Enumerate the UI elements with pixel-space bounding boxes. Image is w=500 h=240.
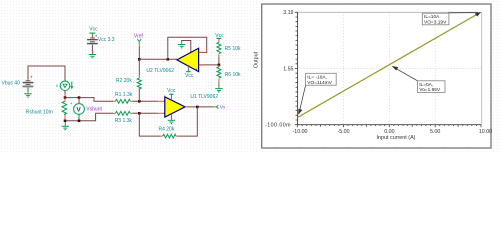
annotation arrow (IL=10A): [448, 12, 481, 16]
node U1 output junction: [196, 106, 199, 109]
svg-text:3.19: 3.19: [283, 10, 293, 16]
node voltmeter bottom junction: [78, 120, 81, 123]
wire R4 feedback loop right: [178, 107, 197, 136]
annotation box (IL=0A): [418, 81, 446, 93]
wire ammeter to top rail: [64, 91, 66, 98]
node ammeter junction: [64, 96, 67, 99]
U2 + input marker: [196, 69, 197, 70]
plot axes: [298, 12, 481, 124]
ground (bottom rail): [62, 122, 69, 130]
svg-text:R2 20k: R2 20k: [116, 78, 132, 84]
node divider mid junction: [218, 64, 221, 67]
annotation arrow (IL=0A): [392, 66, 418, 81]
svg-text:Rshunt 10m: Rshunt 10m: [26, 109, 53, 115]
U2 output pin tick: [174, 58, 176, 60]
plot axis labels: [254, 10, 493, 141]
op-amp U2 TLV9062 (mirrored, points left): [146, 37, 219, 79]
plot gridlines: [298, 12, 482, 124]
svg-text:VO=3.19V: VO=3.19V: [424, 20, 447, 26]
resistor Rshunt 10m: [26, 98, 67, 121]
svg-text:IL=0A,: IL=0A,: [419, 82, 433, 88]
svg-text:R1 1.3k: R1 1.3k: [115, 92, 133, 98]
svg-text:1.55: 1.55: [283, 66, 293, 72]
svg-text:Output: Output: [254, 51, 260, 68]
svg-text:Vo=1.65V: Vo=1.65V: [419, 87, 441, 93]
svg-text:5.00: 5.00: [430, 129, 440, 135]
annotation box (IL=10A): [422, 13, 449, 25]
svg-text:-10.00: -10.00: [292, 129, 307, 135]
resistor R4 20k: [159, 127, 179, 138]
wire Vref to U2 output rail: [138, 46, 140, 59]
ammeter (current probe ii): [56, 81, 74, 91]
node voltmeter top junction: [78, 96, 81, 99]
annotation arrow (IL=-10A): [298, 85, 305, 115]
wire U1 output: [185, 106, 212, 108]
node Vref/R2 junction: [138, 58, 141, 61]
svg-text:R4 20k: R4 20k: [159, 127, 175, 133]
ground (below R6): [215, 89, 222, 92]
power Vcc (divider top): [215, 33, 224, 42]
resistor R5 10k: [217, 42, 241, 65]
resistor R2 20k: [116, 59, 141, 101]
svg-text:Vbus 40: Vbus 40: [2, 80, 21, 86]
op-amp U1 TLV9062 (points right): [158, 88, 218, 124]
svg-text:VO=114mV: VO=114mV: [307, 80, 332, 86]
wire R4 feedback loop left: [139, 113, 160, 136]
resistor R6 10k: [217, 65, 241, 88]
resistor R1 1.3k: [113, 92, 133, 103]
wire R1 to U1: [132, 100, 158, 102]
svg-text:Vshunt: Vshunt: [86, 107, 102, 113]
wire R3 to U1: [132, 112, 158, 114]
wire U2 output to Vref node: [139, 58, 177, 60]
wire bottom rail: [65, 113, 113, 121]
svg-text:IL=10A: IL=10A: [424, 14, 440, 20]
svg-text:IL= -10A,: IL= -10A,: [307, 74, 327, 80]
svg-text:Vcc: Vcc: [185, 73, 194, 79]
svg-text:R3 1.3k: R3 1.3k: [115, 118, 133, 124]
plot curve (output vs input current): [298, 12, 481, 117]
U1 supply-bottom pin to ground: [170, 114, 172, 120]
node U2 output junction: [167, 58, 170, 61]
wire U2 +input to divider: [199, 64, 219, 66]
node ground junction: [64, 120, 67, 123]
U2 supply-bottom pin (Vcc): [187, 66, 189, 68]
svg-text:Vref: Vref: [134, 34, 144, 40]
svg-text:Input current (A): Input current (A): [377, 135, 416, 141]
plot panel background: [262, 4, 491, 148]
svg-text:ii: ii: [56, 83, 58, 88]
wire Vbus to ammeter: [28, 66, 65, 81]
svg-text:Vcc: Vcc: [89, 26, 98, 32]
U2 supply-top wire to ground: [182, 41, 191, 53]
svg-text:V: V: [76, 106, 81, 113]
ground (below Vcc 3.3): [89, 55, 96, 58]
svg-text:10.00: 10.00: [479, 129, 492, 135]
op-amp U1 triangle: [165, 97, 185, 117]
svg-text:R5 10k: R5 10k: [225, 46, 241, 52]
U1 input pins: [158, 100, 165, 102]
op-amp U2 triangle: [177, 48, 199, 71]
U1 output pin tick: [186, 106, 189, 108]
svg-text:R6 10k: R6 10k: [225, 72, 241, 78]
voltage source Vcc 3.3: [88, 26, 115, 53]
U1 - input marker: [164, 96, 165, 97]
annotation box (IL=-10A): [306, 73, 337, 86]
ground (below Vbus): [24, 94, 31, 97]
U2 input pin ticks: [199, 51, 203, 53]
svg-text:+: +: [70, 101, 73, 106]
wire top rail: [65, 98, 113, 102]
x-axis ticks: [298, 125, 481, 128]
U1 supply-top pin (Vcc): [170, 94, 172, 100]
wire U2 feedback loop: [168, 37, 207, 59]
node Vo output label: [212, 105, 225, 110]
ground (U2 supply): [178, 45, 185, 48]
node R1/R2 junction: [138, 100, 141, 103]
voltage source Vbus 40: [2, 75, 34, 94]
ground (U1 supply): [168, 120, 175, 123]
svg-text:Vcc 3.3: Vcc 3.3: [98, 37, 115, 43]
node Vref label: [134, 34, 144, 47]
voltmeter Vshunt: [70, 98, 103, 121]
resistor R3 1.3k: [113, 111, 132, 124]
svg-text:U1 TLV9062: U1 TLV9062: [190, 94, 218, 100]
svg-text:Vcc: Vcc: [167, 88, 176, 94]
node R3/R4 junction: [138, 112, 141, 115]
svg-text:-100.00m: -100.00m: [265, 122, 291, 128]
svg-text:-5.00: -5.00: [337, 129, 349, 135]
svg-text:Vo: Vo: [220, 105, 226, 110]
y-axis ticks: [295, 12, 298, 124]
svg-text:U2 TLV9062: U2 TLV9062: [146, 68, 174, 74]
